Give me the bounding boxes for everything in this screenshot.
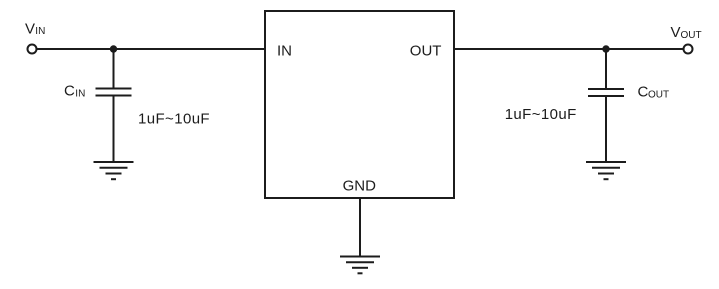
svg-text:GND: GND [343,178,377,195]
svg-text:V: V [671,24,681,41]
svg-text:IN: IN [35,26,45,37]
svg-text:1uF~10uF: 1uF~10uF [138,110,210,127]
svg-text:1uF~10uF: 1uF~10uF [505,106,577,123]
svg-text:OUT: OUT [681,30,702,41]
svg-text:IN: IN [75,89,85,100]
svg-text:OUT: OUT [648,90,669,101]
svg-text:C: C [638,84,649,101]
svg-text:OUT: OUT [410,43,442,60]
svg-text:V: V [25,21,35,38]
svg-text:C: C [64,83,75,100]
svg-text:IN: IN [277,43,292,60]
